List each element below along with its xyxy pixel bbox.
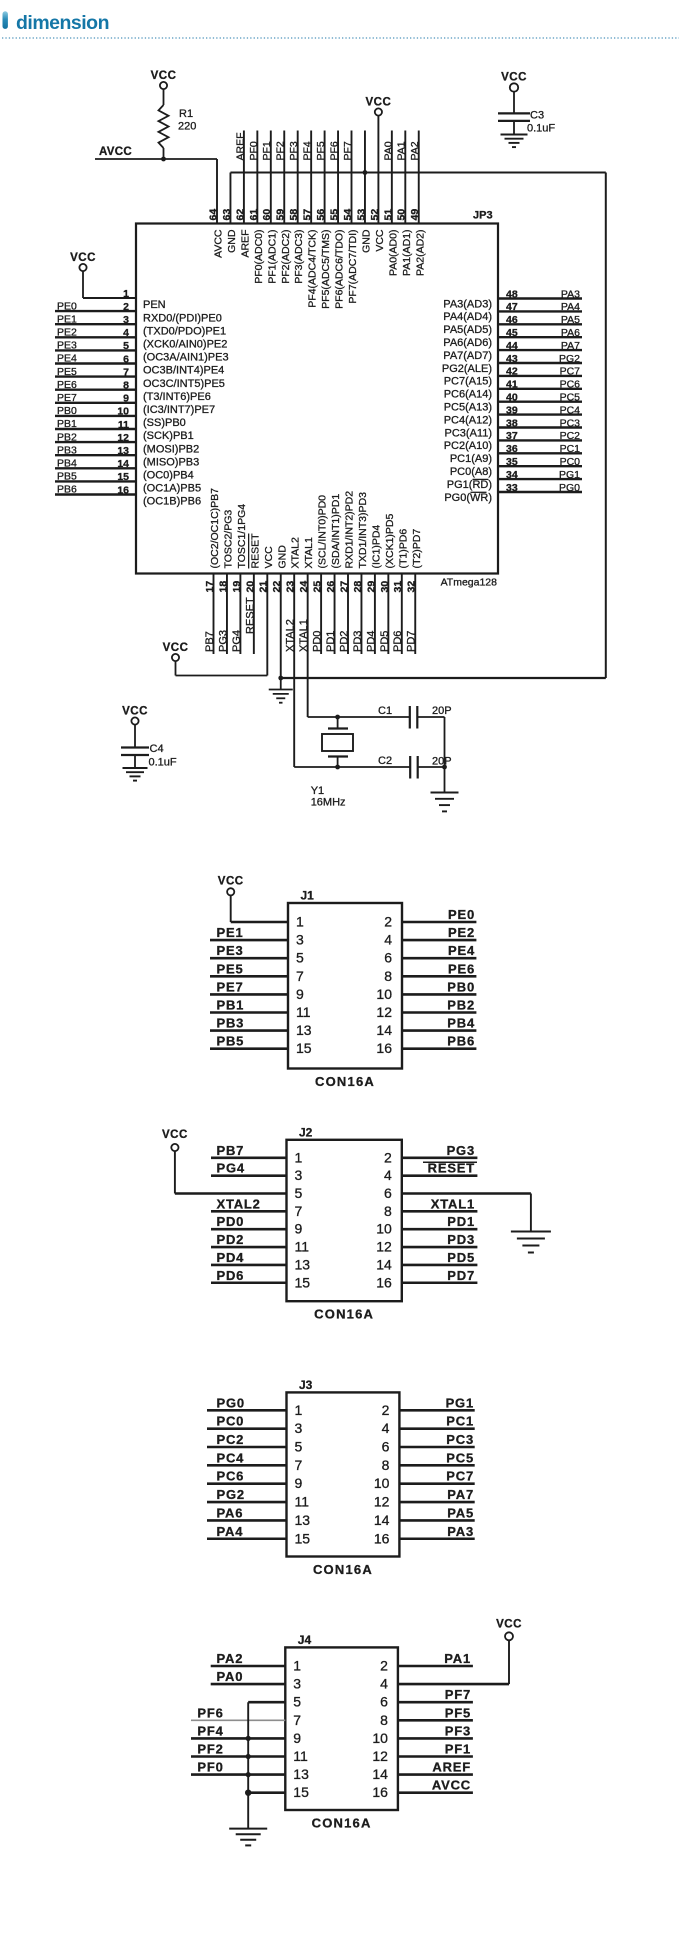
svg-text:PB1: PB1 <box>217 998 245 1013</box>
svg-text:11: 11 <box>295 1494 310 1510</box>
svg-text:PC2: PC2 <box>560 430 581 442</box>
svg-text:8: 8 <box>382 1457 390 1473</box>
svg-text:VCC: VCC <box>366 96 392 108</box>
svg-text:5: 5 <box>123 340 129 352</box>
svg-text:(SCK)PB1: (SCK)PB1 <box>143 430 194 442</box>
svg-text:16: 16 <box>376 1040 392 1056</box>
svg-text:PA3(AD3): PA3(AD3) <box>443 298 492 310</box>
svg-text:PB4: PB4 <box>57 458 77 470</box>
svg-text:4: 4 <box>384 1167 392 1183</box>
svg-text:PA5: PA5 <box>447 1505 474 1520</box>
svg-text:PF6(ADC6/TDO): PF6(ADC6/TDO) <box>334 230 346 309</box>
svg-text:PE5: PE5 <box>217 961 244 976</box>
svg-text:PE4: PE4 <box>57 353 77 365</box>
svg-text:10: 10 <box>374 1475 390 1491</box>
svg-text:12: 12 <box>374 1494 390 1510</box>
svg-text:PE7: PE7 <box>57 392 77 404</box>
svg-text:PF5: PF5 <box>315 141 327 160</box>
svg-text:14: 14 <box>376 1022 392 1038</box>
svg-text:4: 4 <box>384 932 392 948</box>
svg-text:47: 47 <box>506 301 518 313</box>
svg-text:J4: J4 <box>298 1633 312 1647</box>
svg-text:5: 5 <box>295 1185 303 1201</box>
svg-text:PA4: PA4 <box>561 301 580 313</box>
svg-text:(T1)PD6: (T1)PD6 <box>397 529 409 569</box>
svg-text:16MHz: 16MHz <box>311 797 346 809</box>
svg-text:9: 9 <box>295 1221 303 1237</box>
svg-text:44: 44 <box>506 340 518 352</box>
svg-text:3: 3 <box>296 932 304 948</box>
svg-text:PA2: PA2 <box>409 141 421 160</box>
svg-text:PG3: PG3 <box>447 1143 475 1158</box>
svg-text:PC7(A15): PC7(A15) <box>444 376 492 388</box>
svg-text:(T3/INT6)PE6: (T3/INT6)PE6 <box>143 391 211 403</box>
svg-text:AVCC: AVCC <box>213 229 225 258</box>
svg-text:PA7: PA7 <box>447 1487 474 1502</box>
svg-text:4: 4 <box>380 1676 388 1692</box>
svg-text:12: 12 <box>376 1004 392 1020</box>
svg-text:PF4(ADC4/TCK): PF4(ADC4/TCK) <box>307 230 319 308</box>
svg-text:PD6: PD6 <box>217 1268 245 1283</box>
svg-text:(MISO)PB3: (MISO)PB3 <box>143 456 199 468</box>
svg-text:PE6: PE6 <box>448 961 475 976</box>
svg-text:PC4: PC4 <box>217 1450 245 1465</box>
svg-text:(MOSI)PB2: (MOSI)PB2 <box>143 443 199 455</box>
svg-text:PA3: PA3 <box>447 1524 474 1539</box>
svg-text:PB1: PB1 <box>57 418 77 430</box>
svg-text:PC5(A13): PC5(A13) <box>444 402 492 414</box>
svg-text:PA0: PA0 <box>382 141 394 160</box>
svg-text:PD5: PD5 <box>447 1250 475 1265</box>
svg-text:PF0: PF0 <box>197 1760 223 1775</box>
svg-text:PC5: PC5 <box>446 1450 474 1465</box>
svg-text:VCC: VCC <box>162 1129 188 1141</box>
svg-text:6: 6 <box>384 950 392 966</box>
svg-text:JP3: JP3 <box>473 210 493 222</box>
svg-text:4: 4 <box>382 1420 390 1436</box>
svg-text:11: 11 <box>293 1748 308 1764</box>
svg-text:PB4: PB4 <box>447 1016 475 1031</box>
svg-text:PE3: PE3 <box>217 943 244 958</box>
svg-text:16: 16 <box>376 1274 392 1290</box>
svg-text:C4: C4 <box>150 743 164 755</box>
svg-text:CON16A: CON16A <box>314 1307 374 1322</box>
svg-text:6: 6 <box>123 353 129 365</box>
svg-text:PE0: PE0 <box>57 300 77 312</box>
svg-text:PA3: PA3 <box>561 288 580 300</box>
svg-text:RESET: RESET <box>249 533 261 569</box>
svg-text:1: 1 <box>123 288 129 300</box>
svg-text:PC4(A12): PC4(A12) <box>444 414 492 426</box>
svg-text:8: 8 <box>384 968 392 984</box>
svg-text:2: 2 <box>384 914 392 930</box>
svg-text:PB0: PB0 <box>447 979 475 994</box>
svg-text:15: 15 <box>295 1530 311 1546</box>
svg-text:3: 3 <box>123 314 129 326</box>
svg-text:PC0: PC0 <box>560 456 581 468</box>
svg-text:34: 34 <box>506 469 518 481</box>
svg-text:1: 1 <box>296 914 304 930</box>
svg-text:PG0: PG0 <box>559 482 580 494</box>
svg-text:1: 1 <box>293 1658 301 1674</box>
svg-text:13: 13 <box>295 1512 311 1528</box>
svg-text:20P: 20P <box>432 705 452 717</box>
svg-text:PE6: PE6 <box>57 379 77 391</box>
svg-text:PD0: PD0 <box>217 1214 245 1229</box>
svg-text:7: 7 <box>293 1712 301 1728</box>
svg-text:35: 35 <box>506 456 518 468</box>
svg-text:PB3: PB3 <box>217 1016 245 1031</box>
svg-text:PD4: PD4 <box>217 1250 245 1265</box>
svg-text:PF0(ADC0): PF0(ADC0) <box>253 230 265 284</box>
svg-text:PD7: PD7 <box>447 1268 475 1283</box>
svg-text:PA4(AD4): PA4(AD4) <box>443 311 492 323</box>
svg-text:AVCC: AVCC <box>432 1778 471 1793</box>
svg-text:PD2: PD2 <box>217 1232 245 1247</box>
svg-text:PE1: PE1 <box>57 313 77 325</box>
svg-text:PA0: PA0 <box>217 1669 244 1684</box>
svg-text:PA2(AD2): PA2(AD2) <box>414 230 426 277</box>
svg-text:10: 10 <box>117 406 129 418</box>
svg-text:PA7: PA7 <box>561 340 580 352</box>
svg-text:2: 2 <box>382 1402 390 1418</box>
svg-text:PA0(AD0): PA0(AD0) <box>387 230 399 277</box>
svg-text:2: 2 <box>123 301 129 313</box>
svg-text:C3: C3 <box>530 109 544 121</box>
svg-text:PF6: PF6 <box>197 1705 223 1720</box>
svg-text:13: 13 <box>117 445 129 457</box>
svg-text:RXD0/(PDI)PE0: RXD0/(PDI)PE0 <box>143 312 222 324</box>
svg-text:PF1(ADC1): PF1(ADC1) <box>266 230 278 284</box>
svg-text:PB2: PB2 <box>57 431 77 443</box>
svg-text:2: 2 <box>380 1658 388 1674</box>
svg-text:2: 2 <box>384 1149 392 1165</box>
svg-text:XTAL2: XTAL2 <box>290 537 302 568</box>
svg-text:PA5: PA5 <box>561 314 580 326</box>
svg-text:1: 1 <box>295 1149 303 1165</box>
svg-text:TOSC2/PG3: TOSC2/PG3 <box>222 510 234 569</box>
svg-text:9: 9 <box>295 1475 303 1491</box>
svg-text:5: 5 <box>293 1694 301 1710</box>
svg-text:PC3: PC3 <box>446 1432 474 1447</box>
svg-text:VCC: VCC <box>151 70 177 82</box>
svg-text:42: 42 <box>506 366 518 378</box>
svg-text:PA2: PA2 <box>217 1651 244 1666</box>
svg-text:(OC2/OC1C)PB7: (OC2/OC1C)PB7 <box>209 488 221 569</box>
svg-text:dimension: dimension <box>16 12 109 34</box>
svg-text:15: 15 <box>293 1784 309 1800</box>
svg-text:PG1: PG1 <box>559 469 580 481</box>
svg-text:PC4: PC4 <box>560 404 581 416</box>
svg-text:GND: GND <box>276 545 288 569</box>
svg-text:VCC: VCC <box>218 876 244 888</box>
svg-text:VCC: VCC <box>163 642 189 654</box>
svg-text:CON16A: CON16A <box>315 1074 375 1089</box>
svg-text:8: 8 <box>384 1203 392 1219</box>
svg-text:36: 36 <box>506 443 518 455</box>
svg-text:13: 13 <box>296 1022 312 1038</box>
svg-text:J1: J1 <box>301 889 315 903</box>
svg-text:(OC3A/AIN1)PE3: (OC3A/AIN1)PE3 <box>143 352 229 364</box>
svg-text:10: 10 <box>376 986 392 1002</box>
svg-text:(T2)PD7: (T2)PD7 <box>411 529 423 569</box>
svg-text:7: 7 <box>295 1457 303 1473</box>
svg-text:PD3: PD3 <box>447 1232 475 1247</box>
svg-text:XTAL1: XTAL1 <box>303 537 315 568</box>
svg-text:(OC0)PB4: (OC0)PB4 <box>143 470 194 482</box>
svg-text:7: 7 <box>123 366 129 378</box>
svg-text:PF4: PF4 <box>302 141 314 160</box>
svg-text:VCC: VCC <box>122 705 148 717</box>
svg-text:PB5: PB5 <box>217 1034 245 1049</box>
svg-text:16: 16 <box>374 1530 390 1546</box>
svg-text:(XCK0/AIN0)PE2: (XCK0/AIN0)PE2 <box>143 339 227 351</box>
svg-text:14: 14 <box>374 1512 390 1528</box>
svg-text:PC5: PC5 <box>560 392 581 404</box>
svg-text:4: 4 <box>123 327 129 339</box>
svg-text:12: 12 <box>372 1748 388 1764</box>
svg-text:14: 14 <box>372 1766 388 1782</box>
svg-text:AREF: AREF <box>234 132 246 160</box>
svg-text:33: 33 <box>506 482 518 494</box>
svg-text:PF7: PF7 <box>445 1687 471 1702</box>
svg-text:PA1(AD1): PA1(AD1) <box>401 230 413 277</box>
svg-text:PC6(A14): PC6(A14) <box>444 389 492 401</box>
svg-text:PF6: PF6 <box>328 141 340 160</box>
svg-text:PC6: PC6 <box>560 379 581 391</box>
svg-text:PA5(AD5): PA5(AD5) <box>443 324 492 336</box>
svg-text:PE0: PE0 <box>448 907 475 922</box>
svg-text:PE4: PE4 <box>448 943 475 958</box>
svg-text:9: 9 <box>296 986 304 1002</box>
svg-text:R1: R1 <box>179 108 193 120</box>
svg-text:38: 38 <box>506 417 518 429</box>
svg-text:43: 43 <box>506 353 518 365</box>
svg-text:OC3B/INT4)PE4: OC3B/INT4)PE4 <box>143 365 224 377</box>
svg-text:PB2: PB2 <box>447 998 475 1013</box>
svg-text:J2: J2 <box>299 1125 313 1139</box>
svg-text:PG0(WR): PG0(WR) <box>444 492 492 504</box>
svg-text:VCC: VCC <box>496 1619 522 1631</box>
svg-text:0.1uF: 0.1uF <box>149 757 177 769</box>
svg-text:PF3: PF3 <box>445 1723 471 1738</box>
svg-text:14: 14 <box>376 1256 392 1272</box>
svg-text:14: 14 <box>117 458 129 470</box>
svg-text:39: 39 <box>506 404 518 416</box>
svg-text:PA7(AD7): PA7(AD7) <box>443 350 492 362</box>
svg-text:AREF: AREF <box>239 230 251 258</box>
svg-text:PB7: PB7 <box>217 1143 245 1158</box>
svg-text:PB0: PB0 <box>57 405 77 417</box>
svg-text:XTAL1: XTAL1 <box>431 1196 475 1211</box>
svg-text:VCC: VCC <box>374 229 386 252</box>
svg-text:48: 48 <box>506 288 518 300</box>
svg-text:PB5: PB5 <box>57 471 77 483</box>
svg-text:VCC: VCC <box>263 546 275 569</box>
svg-text:8: 8 <box>123 380 129 392</box>
svg-text:3: 3 <box>293 1676 301 1692</box>
svg-text:PF2: PF2 <box>197 1742 223 1757</box>
svg-text:PC7: PC7 <box>446 1469 474 1484</box>
svg-text:PG2(ALE): PG2(ALE) <box>442 363 492 375</box>
svg-text:PG4: PG4 <box>217 1161 245 1176</box>
svg-text:9: 9 <box>123 393 129 405</box>
svg-text:13: 13 <box>295 1256 311 1272</box>
svg-text:13: 13 <box>293 1766 309 1782</box>
svg-text:ATmega128: ATmega128 <box>441 577 498 589</box>
svg-text:11: 11 <box>118 419 129 431</box>
svg-text:45: 45 <box>506 327 518 339</box>
svg-text:5: 5 <box>296 950 304 966</box>
svg-text:PB6: PB6 <box>447 1034 475 1049</box>
svg-text:PF7: PF7 <box>342 141 354 160</box>
svg-text:VCC: VCC <box>501 71 527 83</box>
svg-text:6: 6 <box>382 1439 390 1455</box>
svg-text:(OC1A)PB5: (OC1A)PB5 <box>143 483 201 495</box>
svg-text:PC1: PC1 <box>446 1414 474 1429</box>
svg-text:PF1: PF1 <box>445 1742 471 1757</box>
svg-text:PA1: PA1 <box>444 1651 471 1666</box>
svg-text:CON16A: CON16A <box>312 1816 372 1831</box>
svg-text:15: 15 <box>117 471 129 483</box>
svg-text:PF4: PF4 <box>197 1723 223 1738</box>
svg-text:41: 41 <box>506 379 518 391</box>
svg-text:PC6: PC6 <box>217 1469 245 1484</box>
svg-text:PG2: PG2 <box>217 1487 245 1502</box>
svg-text:PC2(A10): PC2(A10) <box>444 440 492 452</box>
svg-text:PC7: PC7 <box>560 366 581 378</box>
svg-text:(SDA/INT1)PD1: (SDA/INT1)PD1 <box>330 494 342 569</box>
svg-text:TOSC1/1PG4: TOSC1/1PG4 <box>236 504 248 569</box>
svg-text:PF2(ADC2): PF2(ADC2) <box>280 230 292 284</box>
svg-text:PC1: PC1 <box>560 443 581 455</box>
svg-text:16: 16 <box>117 484 129 496</box>
svg-text:PA4: PA4 <box>217 1524 244 1539</box>
svg-text:10: 10 <box>372 1730 388 1746</box>
svg-text:PC1(A9): PC1(A9) <box>450 453 492 465</box>
svg-text:CON16A: CON16A <box>313 1562 373 1577</box>
svg-text:PF3(ADC3): PF3(ADC3) <box>293 230 305 284</box>
svg-text:PB6: PB6 <box>57 484 77 496</box>
svg-text:6: 6 <box>384 1185 392 1201</box>
svg-text:PE5: PE5 <box>57 366 77 378</box>
svg-text:TXD1/INT3)PD3: TXD1/INT3)PD3 <box>357 492 369 569</box>
svg-text:12: 12 <box>117 432 129 444</box>
svg-text:PF1: PF1 <box>261 141 273 160</box>
svg-text:5: 5 <box>295 1439 303 1455</box>
svg-text:20P: 20P <box>432 756 452 768</box>
svg-text:PG0: PG0 <box>217 1395 245 1410</box>
svg-text:GND: GND <box>226 229 238 253</box>
svg-text:AVCC: AVCC <box>99 146 132 158</box>
svg-text:15: 15 <box>295 1274 311 1290</box>
svg-text:PE2: PE2 <box>57 327 77 339</box>
svg-text:7: 7 <box>296 968 304 984</box>
svg-text:PF5: PF5 <box>445 1705 471 1720</box>
svg-text:PG1: PG1 <box>446 1395 474 1410</box>
svg-text:AREF: AREF <box>432 1760 471 1775</box>
svg-text:PD1: PD1 <box>447 1214 475 1229</box>
svg-text:C2: C2 <box>378 755 392 767</box>
svg-text:PC2: PC2 <box>217 1432 245 1447</box>
svg-text:9: 9 <box>293 1730 301 1746</box>
svg-text:PA6(AD6): PA6(AD6) <box>443 337 492 349</box>
svg-text:40: 40 <box>506 392 518 404</box>
svg-text:(TXD0/PDO)PE1: (TXD0/PDO)PE1 <box>143 325 226 337</box>
svg-text:PG2: PG2 <box>559 353 580 365</box>
svg-text:PA1: PA1 <box>396 141 408 160</box>
svg-text:46: 46 <box>506 314 518 326</box>
svg-text:220: 220 <box>178 121 196 133</box>
svg-text:0.1uF: 0.1uF <box>527 123 555 135</box>
svg-text:(IC1)PD4: (IC1)PD4 <box>370 525 382 569</box>
svg-text:7: 7 <box>295 1203 303 1219</box>
svg-text:Y1: Y1 <box>311 785 324 797</box>
svg-text:PF5(ADC5/TMS): PF5(ADC5/TMS) <box>320 230 332 309</box>
svg-text:C1: C1 <box>378 705 392 717</box>
svg-text:37: 37 <box>506 430 518 442</box>
svg-text:OC3C/INT5)PE5: OC3C/INT5)PE5 <box>143 378 225 390</box>
svg-text:PF2: PF2 <box>275 141 287 160</box>
svg-text:(SS)PB0: (SS)PB0 <box>143 417 186 429</box>
svg-text:PA6: PA6 <box>561 327 580 339</box>
svg-text:PB3: PB3 <box>57 444 77 456</box>
svg-text:(SCL/INT0)PD0: (SCL/INT0)PD0 <box>317 495 329 569</box>
svg-text:PC3(A11): PC3(A11) <box>445 427 492 439</box>
svg-text:PG1(RD): PG1(RD) <box>447 479 492 491</box>
svg-text:(XCK1)PD5: (XCK1)PD5 <box>384 513 396 568</box>
svg-text:(IC3/INT7)PE7: (IC3/INT7)PE7 <box>143 404 215 416</box>
svg-text:15: 15 <box>296 1040 312 1056</box>
svg-text:(OC1B)PB6: (OC1B)PB6 <box>143 496 201 508</box>
svg-text:3: 3 <box>295 1420 303 1436</box>
svg-text:PC3: PC3 <box>560 417 581 429</box>
svg-text:XTAL2: XTAL2 <box>217 1196 261 1211</box>
svg-text:PF7(ADC7/TDI): PF7(ADC7/TDI) <box>347 230 359 304</box>
svg-text:PF0: PF0 <box>248 141 260 160</box>
svg-text:PE2: PE2 <box>448 925 475 940</box>
svg-text:PE7: PE7 <box>217 979 244 994</box>
svg-text:PE3: PE3 <box>57 340 77 352</box>
svg-text:PA6: PA6 <box>217 1505 244 1520</box>
svg-text:PF3: PF3 <box>288 141 300 160</box>
svg-text:16: 16 <box>372 1784 388 1800</box>
svg-text:PC0(A8): PC0(A8) <box>450 466 492 478</box>
svg-text:PE1: PE1 <box>217 925 244 940</box>
svg-text:8: 8 <box>380 1712 388 1728</box>
svg-text:PEN: PEN <box>143 299 166 311</box>
svg-text:6: 6 <box>380 1694 388 1710</box>
svg-text:RXD1/INT2)PD2: RXD1/INT2)PD2 <box>344 491 356 569</box>
svg-text:11: 11 <box>296 1004 311 1020</box>
svg-text:12: 12 <box>376 1239 392 1255</box>
svg-text:J3: J3 <box>299 1378 313 1392</box>
svg-text:VCC: VCC <box>70 252 96 264</box>
svg-text:10: 10 <box>376 1221 392 1237</box>
svg-text:GND: GND <box>360 229 372 253</box>
svg-text:PC0: PC0 <box>217 1414 245 1429</box>
svg-text:1: 1 <box>295 1402 303 1418</box>
svg-text:3: 3 <box>295 1167 303 1183</box>
svg-text:11: 11 <box>295 1239 310 1255</box>
